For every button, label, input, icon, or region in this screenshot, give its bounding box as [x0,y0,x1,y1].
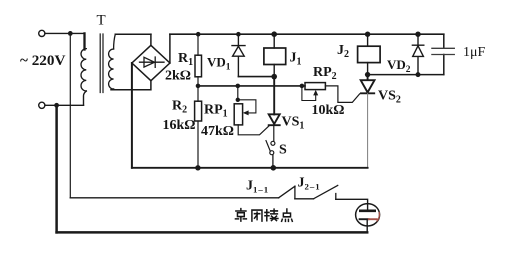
wire DC minus rail [132,167,368,169]
wire bottom terminal to primary [45,104,84,106]
potentiometer RP1 [234,104,242,125]
wire bridge bottom to secondary [111,81,151,90]
wire top terminal to transformer primary [45,32,85,34]
svg-text:T: T [97,13,106,29]
wire DC minus from bridge [131,63,133,168]
wire secondary top lead [114,34,116,49]
switch S [271,141,275,145]
wire VS1 anode from J1 bottom [273,77,275,115]
node switch bottom [271,165,277,171]
resistor R1 [195,55,202,77]
diode VD2 [412,34,423,74]
node J2 top [365,32,370,37]
resistor R2 [195,101,202,121]
wire live drop to contacts [69,33,71,197]
thyristor VS2 [361,75,375,94]
svg-text:47kΩ: 47kΩ [201,124,234,139]
label chang bi jie dian (normally closed contact) [235,209,292,222]
wire J2 top lead [367,34,369,46]
wire J1 top lead [273,34,275,48]
svg-text:S: S [279,143,287,158]
thyristor VS1 [269,114,280,125]
contact J1-1 [279,186,295,199]
wire top rail main [170,33,444,35]
diode VD1 [232,34,245,76]
wire RP1 bottom to VS1 gate [238,125,269,135]
transformer core [100,34,103,93]
wire socket bottom lead [366,219,368,232]
wire primary bottom lead [84,91,87,105]
node VD2 top [415,32,420,37]
transformer T primary winding [81,49,86,91]
wire RP2 right to VS2 gate [325,86,359,103]
node R1 top [196,32,201,37]
wire R1 top lead [197,34,199,55]
wire VD1 bottom to J1 bottom [238,76,274,78]
wire secondary bottom lead [114,88,115,91]
node J1 top [271,31,277,37]
wire primary top lead [83,33,85,49]
wire R2 top lead [197,86,199,101]
node RP1 top rail [236,84,241,89]
wire bridge top connector [150,34,152,45]
wire switch bottom lead [272,155,274,168]
node R2 bottom [195,165,200,170]
wire contact to socket [336,199,368,210]
wire top rail left segment [115,33,151,35]
bridge diode symbol [140,57,165,67]
wire R2 bottom lead [197,121,199,168]
wire VS1 cathode to switch [273,125,275,141]
wire bridge right connector to top rail [169,34,171,63]
node R1 bottom [196,84,201,89]
RP1 wiper arrow [243,110,249,115]
svg-text:16kΩ: 16kΩ [163,118,196,133]
node J1 bottom [271,74,277,80]
svg-text:~ 220V: ~ 220V [20,52,65,69]
terminal top-left [39,30,45,36]
wire RP2 wiper loop [302,86,316,101]
relay coil J2 [358,46,381,62]
node VD2 bottom [416,72,421,77]
wire contacts feed line [70,197,278,199]
socket lamp [356,204,380,226]
terminal bottom-left [39,102,45,108]
node RP2 left rail [300,84,305,89]
transformer T secondary winding [109,49,114,89]
wire VS2 cathode [367,93,369,168]
wire node B rail [198,85,305,87]
node J2 bottom [365,72,370,77]
node RP1 wiper junction [236,98,240,102]
svg-text:10kΩ: 10kΩ [312,103,345,118]
relay coil J1 [264,48,286,65]
wire bottom rail [57,231,368,234]
wire between contacts [295,198,314,200]
capacitor C 1uF [443,34,445,74]
svg-text:1μF: 1μF [463,45,486,60]
wire J1 bottom lead [273,65,275,77]
node live tap [68,31,73,36]
RP2 wiper arrow [313,90,318,96]
wire R1 bottom lead [197,77,199,86]
wire neutral drop [55,105,58,232]
wire J2 bottom lead [367,63,369,75]
potentiometer RP2 [305,83,325,90]
bridge rectifier diamond [132,45,170,80]
node neutral tap [54,103,59,108]
wire RP1 top lead [237,86,239,100]
wire node C line [368,74,444,76]
contact J2-1 [314,185,338,199]
node VD1 top [236,32,241,37]
svg-text:2kΩ: 2kΩ [165,69,191,84]
wire RP1 wiper loop [238,100,256,113]
